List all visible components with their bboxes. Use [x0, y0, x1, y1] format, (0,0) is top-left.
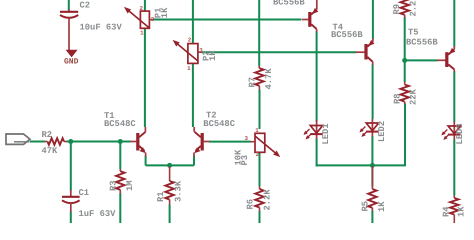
svg-text:1uF 63V: 1uF 63V	[79, 209, 117, 219]
svg-text:47K: 47K	[42, 146, 59, 156]
wire top rail to P2	[192, 0, 194, 44]
resistor R6	[255, 186, 263, 211]
svg-text:1: 1	[255, 127, 259, 134]
wire LED rail	[316, 104, 405, 166]
label R5	[361, 201, 371, 212]
label R9	[392, 4, 402, 15]
svg-text:2.2K: 2.2K	[262, 189, 272, 211]
pin 1 P2	[187, 65, 191, 72]
transistor T3	[302, 0, 318, 32]
label R2	[42, 130, 53, 140]
resistor R1	[165, 166, 173, 205]
svg-text:R4: R4	[442, 206, 452, 217]
svg-text:3: 3	[245, 135, 249, 142]
svg-text:C1: C1	[79, 188, 90, 198]
wire T1 emitter drop	[145, 156, 147, 165]
svg-text:R9: R9	[392, 4, 402, 15]
svg-text:R7: R7	[248, 77, 258, 88]
pin 3 P3	[245, 135, 249, 142]
svg-text:BC548C: BC548C	[104, 119, 136, 129]
label R3	[109, 180, 119, 191]
pin 1 P1	[140, 30, 144, 37]
wire T5 collector to LED3	[453, 72, 455, 123]
wire P1 wiper to T3 base	[153, 19, 302, 21]
wire T3 to LED1	[316, 32, 318, 122]
junction R8/R9/T5 base	[402, 58, 407, 63]
label C1	[79, 188, 90, 198]
wire emitter rail	[146, 164, 194, 166]
wire LED2 to rail junction	[371, 136, 373, 165]
label P1	[154, 8, 164, 19]
resistor R2	[45, 138, 67, 145]
wire node to C1	[70, 142, 72, 191]
pin 3 P2	[199, 47, 203, 54]
wire top rail to P1	[144, 0, 146, 11]
label P2	[202, 50, 212, 61]
wire T2 base to P3	[209, 141, 251, 143]
LED LED3	[441, 122, 460, 141]
label R4	[442, 206, 452, 217]
label R8	[393, 93, 403, 104]
wire input to R2	[30, 141, 45, 143]
pin 2 P2	[188, 37, 192, 44]
value P1 1K	[160, 7, 170, 18]
svg-text:22K: 22K	[409, 88, 419, 105]
wire T2 emitter drop	[193, 156, 195, 165]
wire T4 collector to LED2	[372, 65, 374, 120]
svg-text:10uF 63V: 10uF 63V	[80, 23, 123, 33]
input connector X1	[6, 134, 30, 144]
label R1	[156, 191, 166, 202]
wire junction to T5 base	[405, 59, 438, 61]
svg-text:1K: 1K	[208, 50, 218, 61]
resistor R9	[401, 0, 409, 18]
wire P2 wiper to T4 base	[202, 51, 357, 53]
wire +V rail to C2	[68, 0, 70, 11]
svg-text:BC556B: BC556B	[406, 37, 438, 47]
wire C1 to bottom edge	[70, 212, 72, 224]
value T3 BC556B (clipped)	[273, 0, 305, 8]
resistor R8	[401, 82, 409, 104]
wire P1 to T1 collector	[144, 28, 146, 127]
junction node at R3	[118, 139, 123, 144]
value R9 2.2K	[408, 0, 418, 17]
transistor T2	[194, 127, 210, 157]
junction node at C1/R2	[68, 139, 73, 144]
resistor R4	[450, 196, 458, 224]
transistor T1	[131, 127, 146, 157]
label C2	[80, 1, 91, 11]
value R5 1K	[377, 201, 387, 212]
resistor R7	[255, 66, 263, 90]
svg-text:1M: 1M	[125, 180, 135, 191]
svg-text:BC548C: BC548C	[203, 119, 235, 129]
svg-text:R3: R3	[109, 180, 119, 191]
label T5	[408, 28, 419, 38]
value R8 22K	[409, 88, 419, 105]
ground GND	[64, 50, 79, 67]
pin 2 P1	[140, 5, 144, 12]
resistor R5	[368, 166, 376, 211]
wire R5 to bottom edge	[371, 211, 373, 224]
wire junction to R8	[404, 61, 406, 83]
svg-text:T5: T5	[408, 28, 419, 38]
potentiometer P2	[173, 40, 202, 63]
svg-text:2: 2	[188, 37, 192, 44]
svg-text:1K: 1K	[377, 201, 387, 212]
value R4 1K	[457, 206, 467, 217]
wire R1 to bottom edge	[169, 205, 171, 224]
svg-text:LED3: LED3	[455, 123, 465, 144]
wire R6 to bottom edge	[259, 211, 261, 223]
svg-text:C2: C2	[80, 1, 91, 11]
transistor T5	[437, 46, 455, 72]
svg-text:BC556B: BC556B	[331, 30, 363, 40]
LED LED1	[304, 120, 323, 140]
svg-text:LED1: LED1	[321, 123, 331, 144]
svg-text:2: 2	[140, 5, 144, 12]
label LED2	[377, 121, 387, 142]
wire rail junction to R5	[371, 165, 373, 186]
svg-text:LED2: LED2	[377, 121, 387, 142]
wire top rail to R7	[258, 0, 260, 66]
label T2	[206, 111, 217, 121]
transistor T4	[356, 39, 375, 66]
wire R9 to junction node	[404, 17, 406, 61]
label R7	[248, 77, 258, 88]
svg-text:R2: R2	[42, 130, 53, 140]
label T4	[333, 23, 344, 33]
wire P2 to T2 collector	[192, 63, 194, 127]
junction emitters/R1	[167, 163, 172, 168]
wire top rail to T5 emitter	[453, 0, 455, 47]
wire LED3 to R4	[453, 140, 455, 196]
wire node to R3	[119, 142, 121, 170]
wire LED1 to rail	[316, 139, 318, 167]
capacitor C1	[62, 190, 80, 212]
value R1 3.3K	[174, 180, 184, 202]
value T5 BC556B	[406, 37, 438, 47]
capacitor C2	[60, 10, 78, 51]
junction LED rail/R5	[370, 163, 375, 168]
wire R2 to T1 base node	[67, 141, 131, 143]
value T2 BC548C	[203, 119, 235, 129]
label LED3	[455, 123, 465, 144]
label R6	[246, 199, 256, 210]
label P3	[240, 155, 250, 166]
label LED1	[321, 123, 331, 144]
value C1 1uF 63V	[79, 209, 117, 219]
wire P3 to R6	[259, 152, 261, 186]
value R3 1M	[125, 180, 135, 191]
value R7 4.7K	[264, 68, 274, 90]
svg-text:1: 1	[140, 30, 144, 37]
svg-text:1K: 1K	[160, 7, 170, 18]
wire R3 to bottom edge	[119, 193, 121, 223]
svg-text:1K: 1K	[457, 206, 467, 217]
svg-text:3.3K: 3.3K	[174, 180, 184, 202]
svg-text:BC556B: BC556B	[273, 0, 305, 8]
value T1 BC548C	[104, 119, 136, 129]
svg-text:R1: R1	[156, 191, 166, 202]
potentiometer P1	[124, 7, 154, 28]
value P2 1K	[208, 50, 218, 61]
svg-text:R8: R8	[393, 93, 403, 104]
value R2 47K	[42, 146, 59, 156]
svg-text:2.2K: 2.2K	[408, 0, 418, 17]
value R6 2.2K	[262, 189, 272, 211]
wire top rail to T4 emitter	[372, 0, 374, 39]
svg-text:10K: 10K	[233, 149, 243, 166]
svg-text:4.7K: 4.7K	[264, 68, 274, 90]
value T4 BC556B	[331, 30, 363, 40]
svg-text:R6: R6	[246, 199, 256, 210]
input pin	[14, 141, 30, 143]
resistor R3	[116, 169, 124, 194]
svg-text:1: 1	[187, 65, 191, 72]
svg-text:GND: GND	[64, 58, 79, 67]
svg-text:2: 2	[256, 151, 260, 158]
value C2 10uF 63V	[80, 23, 123, 33]
pin 2 P3	[256, 151, 260, 158]
pin 1 P3	[255, 127, 259, 134]
pin 3 P1	[151, 16, 155, 23]
potentiometer P3	[250, 133, 280, 157]
wire R7 to P3	[259, 90, 261, 130]
label T1	[104, 111, 115, 121]
value P3 10K	[233, 149, 243, 166]
LED LED2	[359, 119, 378, 137]
svg-text:R5: R5	[361, 201, 371, 212]
